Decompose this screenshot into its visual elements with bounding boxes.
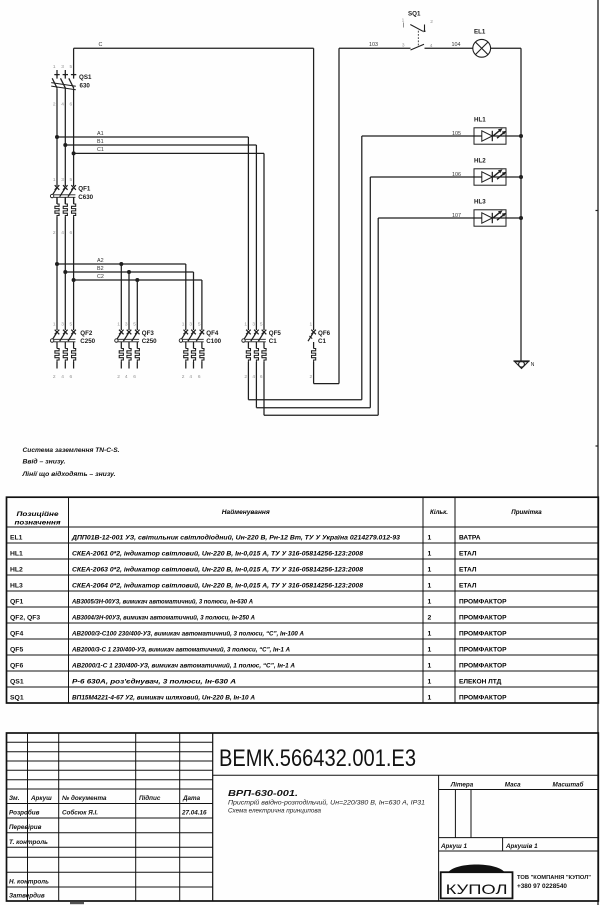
- lamp EL1: [473, 39, 491, 57]
- circuit breaker QF3: [115, 330, 140, 369]
- junction dot N/HL3: [519, 216, 523, 220]
- svg-text:QF1: QF1: [10, 598, 23, 605]
- svg-text:C1: C1: [97, 147, 104, 153]
- svg-text:3: 3: [252, 321, 255, 327]
- junction dot N/HL2: [519, 175, 523, 179]
- svg-text:Собсюк Я.І.: Собсюк Я.І.: [62, 809, 98, 817]
- svg-text:HL3: HL3: [10, 582, 23, 589]
- table row QF5: [10, 645, 507, 653]
- svg-text:Лінії що відходять – знизу.: Лінії що відходять – знизу.: [21, 470, 115, 478]
- svg-text:1: 1: [53, 64, 56, 70]
- circuit breaker QF1: [50, 185, 76, 217]
- svg-text:3: 3: [61, 64, 64, 70]
- svg-text:1: 1: [428, 598, 432, 605]
- svg-text:3: 3: [125, 321, 128, 327]
- svg-text:4: 4: [61, 102, 64, 108]
- svg-text:Н. контроль: Н. контроль: [9, 879, 49, 886]
- svg-text:СКЕА-2063 0*2, індикатор світл: СКЕА-2063 0*2, індикатор світловий, Uн-2…: [72, 565, 363, 573]
- svg-text:HL2: HL2: [474, 158, 486, 165]
- svg-text:4: 4: [125, 374, 128, 380]
- litera/masa/masshtab: [450, 781, 585, 789]
- disconnector QS1: [51, 75, 76, 90]
- svg-text:5: 5: [260, 321, 263, 327]
- QF5 pins 2,4,6: [244, 374, 263, 380]
- svg-text:QF5: QF5: [269, 330, 282, 337]
- wire B1: [65, 145, 256, 330]
- svg-text:6: 6: [133, 374, 136, 380]
- svg-text:3: 3: [61, 177, 64, 183]
- phase bus L3 vertical: [73, 89, 75, 331]
- svg-text:C: C: [99, 42, 103, 48]
- wire HL3 output to node N: [506, 217, 521, 219]
- svg-text:Затвердив: Затвердив: [9, 892, 45, 900]
- svg-text:1: 1: [310, 321, 313, 327]
- svg-text:АВ3005/3Н-00УЗ, вимикач автома: АВ3005/3Н-00УЗ, вимикач автоматичний, 3 …: [71, 597, 253, 605]
- svg-text:Перевірив: Перевірив: [9, 823, 42, 831]
- svg-text:3: 3: [61, 321, 64, 327]
- svg-text:Кільк.: Кільк.: [430, 509, 448, 516]
- svg-text:ВАТРА: ВАТРА: [459, 534, 481, 541]
- QS1 pins 2,4,6: [53, 102, 73, 108]
- svg-text:A2: A2: [97, 258, 104, 264]
- svg-text:ПРОМФАКТОР: ПРОМФАКТОР: [459, 694, 507, 701]
- svg-text:2: 2: [428, 614, 432, 621]
- svg-text:С250: С250: [142, 338, 157, 345]
- QF4 pins 1,3,5: [182, 321, 201, 327]
- svg-text:A1: A1: [97, 131, 104, 137]
- svg-text:N: N: [531, 362, 535, 368]
- svg-text:Ввід – знизу.: Ввід – знизу.: [23, 458, 66, 466]
- svg-text:106: 106: [452, 172, 461, 178]
- svg-text:+380 97 0228540: +380 97 0228540: [517, 883, 567, 890]
- svg-text:3: 3: [189, 321, 192, 327]
- LED indicator HL2: [474, 169, 506, 185]
- svg-text:ЕТАЛ: ЕТАЛ: [459, 550, 477, 557]
- svg-text:6: 6: [70, 374, 73, 380]
- svg-text:1: 1: [428, 566, 432, 573]
- bottom-left page mark: [70, 902, 84, 904]
- wire HL2 output to node N: [506, 176, 521, 178]
- svg-text:Примітка: Примітка: [511, 509, 542, 516]
- svg-text:HL2: HL2: [10, 566, 23, 573]
- phase bus L1 vertical: [56, 70, 58, 330]
- svg-text:ПРОМФАКТОР: ПРОМФАКТОР: [459, 598, 507, 605]
- svg-text:2: 2: [430, 19, 433, 25]
- wire 106 (QF5 pole2 to HL2): [256, 177, 474, 408]
- node N vertical line: [520, 48, 522, 361]
- svg-text:5: 5: [70, 321, 73, 327]
- svg-text:1: 1: [428, 534, 432, 541]
- svg-text:2: 2: [182, 374, 185, 380]
- svg-text:630: 630: [80, 83, 91, 90]
- svg-text:Схема електрична принципова: Схема електрична принципова: [228, 808, 321, 815]
- svg-text:АВ2000/3-С 1 230/400-УЗ, вимик: АВ2000/3-С 1 230/400-УЗ, вимикач автомат…: [71, 645, 290, 653]
- circuit breaker QF5: [242, 330, 266, 362]
- junction dot B1: [63, 143, 67, 147]
- table row QF2, QF3: [10, 613, 507, 621]
- svg-text:КУПОЛ: КУПОЛ: [446, 882, 508, 897]
- QF3 pins 2,4,6: [117, 374, 136, 380]
- junction dot C1: [72, 151, 76, 155]
- junction dot N/HL1: [519, 134, 523, 138]
- arkush row: [440, 842, 538, 850]
- junction dot A1: [55, 135, 59, 139]
- svg-text:Аркуш: Аркуш: [30, 795, 52, 802]
- earth/ground symbol N: [513, 361, 529, 369]
- svg-text:1: 1: [244, 321, 247, 327]
- svg-text:АВ2000/3-С100 230/400-УЗ, вими: АВ2000/3-С100 230/400-УЗ, вимикач автома…: [71, 629, 304, 637]
- table row HL2: [10, 565, 477, 573]
- phase bus L2 vertical: [64, 70, 66, 330]
- svg-text:Найменування: Найменування: [222, 509, 270, 516]
- svg-text:1: 1: [428, 694, 432, 701]
- table row SQ1: [10, 693, 507, 701]
- svg-text:1: 1: [117, 321, 120, 327]
- wire C1: [74, 153, 264, 330]
- wire C2: [74, 280, 202, 330]
- wire A1: [57, 137, 248, 330]
- svg-text:4: 4: [430, 43, 433, 49]
- limit switch SQ1: [404, 23, 426, 51]
- svg-text:2: 2: [53, 102, 56, 108]
- svg-text:6: 6: [198, 374, 201, 380]
- svg-text:С1: С1: [269, 338, 277, 345]
- svg-text:Т. контроль: Т. контроль: [9, 839, 48, 846]
- svg-text:Зм.: Зм.: [9, 795, 20, 802]
- frame tick marks: [596, 210, 599, 212]
- svg-text:Позиційне: Позиційне: [17, 511, 60, 518]
- svg-text:Система заземлення TN-C-S.: Система заземлення TN-C-S.: [23, 447, 120, 454]
- svg-text:5: 5: [198, 321, 201, 327]
- svg-text:EL1: EL1: [474, 29, 486, 36]
- wire B2: [65, 272, 193, 330]
- svg-text:Дата: Дата: [182, 795, 201, 802]
- svg-text:4: 4: [189, 374, 192, 380]
- svg-text:3: 3: [402, 42, 405, 48]
- svg-text:HL3: HL3: [474, 199, 486, 206]
- svg-text:Маса: Маса: [505, 782, 521, 789]
- QF1 pins 2,4,6: [53, 230, 73, 236]
- components table: [7, 497, 599, 703]
- table row QF4: [10, 629, 507, 637]
- wire A2: [57, 264, 186, 330]
- svg-text:Підпис: Підпис: [139, 794, 161, 802]
- svg-text:4: 4: [61, 230, 64, 236]
- svg-text:QF6: QF6: [10, 662, 23, 669]
- svg-text:QF6: QF6: [318, 330, 331, 337]
- svg-text:Аркуш 1: Аркуш 1: [440, 843, 468, 850]
- table row QF1: [10, 597, 507, 605]
- svg-text:SQ1: SQ1: [10, 694, 24, 701]
- svg-text:5: 5: [70, 64, 73, 70]
- junction dots B2: [63, 270, 67, 274]
- svg-text:Пристрій ввідно-розподільчий,: Пристрій ввідно-розподільчий, Uн=220/380…: [228, 798, 425, 806]
- svg-text:АВ2000/1-С 1 230/400-УЗ, вимик: АВ2000/1-С 1 230/400-УЗ, вимикач автомат…: [71, 661, 295, 669]
- svg-text:ДПП01В-12-001 УЗ, світильник с: ДПП01В-12-001 УЗ, світильник світлодіодн…: [71, 533, 400, 541]
- svg-text:QF4: QF4: [10, 630, 23, 637]
- svg-text:1: 1: [428, 630, 432, 637]
- wire from EL1 to N line: [491, 47, 521, 49]
- QF2 pins 2,4,6: [53, 374, 73, 380]
- svg-text:1: 1: [402, 18, 405, 24]
- svg-text:4: 4: [252, 374, 255, 380]
- KUPOL logo: [441, 864, 513, 898]
- table row QF6: [10, 661, 507, 669]
- wire HL1 output to node N: [506, 135, 521, 137]
- svg-text:ЕЛЕКОН ЛТД: ЕЛЕКОН ЛТД: [459, 678, 502, 685]
- svg-text:2: 2: [310, 374, 313, 380]
- svg-text:СКЕА-2061 0*2, індикатор світл: СКЕА-2061 0*2, індикатор світловий, Uн-2…: [72, 549, 363, 557]
- QF2 pins 1,3,5: [53, 321, 73, 327]
- svg-text:С630: С630: [78, 194, 93, 201]
- svg-text:QF5: QF5: [10, 646, 23, 653]
- svg-text:C2: C2: [97, 274, 104, 280]
- QF5 pins 1,3,5: [244, 321, 263, 327]
- svg-text:ПРОМФАКТОР: ПРОМФАКТОР: [459, 646, 507, 653]
- wire 104 (SQ1 to lamp EL1): [425, 47, 473, 49]
- svg-text:1: 1: [53, 321, 56, 327]
- svg-text:QF4: QF4: [206, 330, 219, 337]
- svg-text:ВЕМК.566432.001.Е3: ВЕМК.566432.001.Е3: [219, 745, 416, 772]
- junction dots A2: [55, 262, 59, 266]
- svg-text:2: 2: [117, 374, 120, 380]
- svg-text:6: 6: [70, 230, 73, 236]
- svg-text:ВРП-630-001.: ВРП-630-001.: [228, 788, 298, 798]
- svg-text:27.04.16: 27.04.16: [181, 810, 207, 817]
- svg-text:104: 104: [452, 42, 461, 48]
- svg-text:HL1: HL1: [10, 550, 23, 557]
- svg-text:ПРОМФАКТОР: ПРОМФАКТОР: [459, 630, 507, 637]
- LED indicator HL3: [474, 210, 506, 226]
- circuit breaker QF4: [179, 330, 204, 369]
- table row QS1: [10, 677, 502, 685]
- svg-text:1: 1: [428, 582, 432, 589]
- svg-text:С250: С250: [80, 338, 95, 345]
- LED indicator HL1: [474, 128, 506, 144]
- svg-text:103: 103: [369, 42, 378, 48]
- circuit breaker QF2: [50, 330, 76, 369]
- wire 105 (QF5 pole1 to HL1): [248, 136, 474, 400]
- svg-text:QF3: QF3: [142, 330, 155, 337]
- svg-text:С100: С100: [206, 338, 221, 345]
- title block header texts: [9, 794, 201, 802]
- junction dots C2: [72, 278, 76, 282]
- signature rows: [9, 809, 207, 900]
- svg-text:1: 1: [182, 321, 185, 327]
- svg-text:ВП15М4221-4-67 У2, вимикач шля: ВП15М4221-4-67 У2, вимикач шляховий, Uн-…: [72, 693, 255, 701]
- table row HL3: [10, 581, 477, 589]
- svg-text:6: 6: [260, 374, 263, 380]
- QF4 pins 2,4,6: [182, 374, 201, 380]
- wire 107 (QF5 pole3 to HL3): [264, 218, 474, 415]
- svg-text:6: 6: [70, 102, 73, 108]
- table row EL1: [10, 533, 481, 541]
- svg-text:Розробив: Розробив: [9, 809, 40, 817]
- svg-text:SQ1: SQ1: [408, 11, 421, 18]
- svg-text:СКЕА-2064 0*2, індикатор світл: СКЕА-2064 0*2, індикатор світловий, Uн-2…: [72, 581, 363, 589]
- svg-text:1: 1: [428, 662, 432, 669]
- svg-text:позначення: позначення: [15, 519, 61, 526]
- QF6 blade tick: [309, 336, 312, 339]
- svg-text:QF1: QF1: [78, 185, 91, 192]
- svg-text:Літера: Літера: [450, 781, 474, 789]
- svg-text:Р-6 630А, роз'єднувач, 3 полюс: Р-6 630А, роз'єднувач, 3 полюси, Iн-630 …: [72, 677, 236, 685]
- svg-text:107: 107: [452, 213, 461, 219]
- svg-text:QS1: QS1: [79, 74, 92, 81]
- svg-text:QF2: QF2: [80, 330, 93, 337]
- wire C (phase C feed to QF6): [74, 48, 314, 330]
- svg-text:1: 1: [428, 678, 432, 685]
- svg-text:HL1: HL1: [474, 117, 486, 124]
- svg-text:2: 2: [244, 374, 247, 380]
- svg-text:QF2, QF3: QF2, QF3: [10, 614, 40, 621]
- svg-text:QS1: QS1: [10, 678, 24, 685]
- svg-text:B1: B1: [97, 139, 104, 145]
- svg-text:1: 1: [53, 177, 56, 183]
- note text grounding system: [21, 447, 119, 478]
- table row HL1: [10, 549, 477, 557]
- wire 103 (QF6 output to switch SQ1): [314, 48, 411, 383]
- svg-text:1: 1: [428, 550, 432, 557]
- QS1 pins 1,3,5: [53, 64, 73, 70]
- svg-text:Масштаб: Масштаб: [553, 781, 585, 789]
- svg-text:2: 2: [53, 374, 56, 380]
- svg-text:4: 4: [61, 374, 64, 380]
- svg-text:105: 105: [452, 131, 461, 137]
- page right frame: [597, 0, 599, 905]
- svg-text:ТОВ "КОМПАНІЯ "КУПОЛ": ТОВ "КОМПАНІЯ "КУПОЛ": [517, 875, 591, 881]
- company name: [517, 875, 591, 890]
- title block frame: [7, 733, 599, 901]
- svg-text:С1: С1: [318, 338, 326, 345]
- QF1 pins 1,3,5: [53, 177, 73, 183]
- svg-text:2: 2: [53, 230, 56, 236]
- svg-text:EL1: EL1: [10, 534, 23, 541]
- svg-text:ЕТАЛ: ЕТАЛ: [459, 582, 477, 589]
- svg-text:1: 1: [428, 646, 432, 653]
- svg-text:5: 5: [133, 321, 136, 327]
- svg-text:ПРОМФАКТОР: ПРОМФАКТОР: [459, 614, 507, 621]
- svg-text:АВ3004/3Н-00УЗ, вимикач автома: АВ3004/3Н-00УЗ, вимикач автоматичний, 3 …: [71, 613, 255, 621]
- QF3 pins 1,3,5: [117, 321, 136, 327]
- document name: [228, 788, 425, 815]
- svg-text:ПРОМФАКТОР: ПРОМФАКТОР: [459, 662, 507, 669]
- svg-text:B2: B2: [97, 266, 104, 272]
- svg-text:ЕТАЛ: ЕТАЛ: [459, 566, 477, 573]
- svg-text:Аркушів 1: Аркушів 1: [505, 842, 538, 850]
- table header: [15, 509, 543, 527]
- circuit breaker QF6: [308, 330, 316, 362]
- svg-text:5: 5: [70, 177, 73, 183]
- svg-text:№ документа: № документа: [62, 794, 107, 802]
